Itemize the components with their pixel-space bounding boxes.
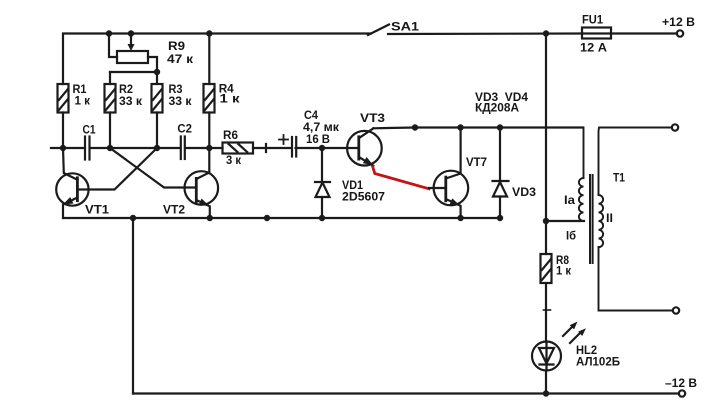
wire emitter bus (64, 217, 501, 219)
wire C2 to R6 (186, 147, 223, 149)
label VD1 (342, 178, 363, 192)
svg-text:33 к: 33 к (169, 94, 193, 108)
svg-text:VT7: VT7 (466, 155, 487, 169)
transistor VT3 (347, 128, 382, 165)
svg-text:R6: R6 (223, 128, 238, 142)
label VT2 (163, 203, 185, 217)
svg-text:T1: T1 (613, 171, 625, 185)
label Ib (566, 229, 576, 243)
svg-text:16 В: 16 В (306, 132, 330, 146)
node A (107, 145, 113, 151)
svg-text:3 к: 3 к (226, 153, 242, 167)
label VT3 (360, 111, 385, 125)
wire nick (544, 309, 551, 311)
wire tap to winding (546, 220, 584, 222)
potentiometer R9 (109, 34, 157, 73)
diode VD1 (315, 148, 330, 218)
label R2 (119, 82, 133, 96)
capacitor C2 (181, 137, 185, 160)
label 16 V (306, 132, 330, 146)
node mid bus (264, 215, 270, 221)
label VD3 (512, 185, 536, 199)
label 4,7 mk (303, 120, 340, 134)
terminal +12V (677, 30, 683, 36)
svg-text:+12 В: +12 В (662, 15, 695, 29)
wire supply branch vertical (545, 34, 547, 222)
wire cross coupling B (77, 148, 157, 190)
label -12 V (665, 376, 697, 390)
wire ground drop (132, 218, 134, 394)
svg-text:1 к: 1 к (556, 264, 572, 278)
resistor R3 (152, 84, 163, 148)
node VD3 top (497, 124, 503, 130)
label VT1 (85, 203, 109, 217)
node R4 bottom (206, 145, 212, 151)
label R8 (556, 253, 569, 267)
label R9 (168, 39, 185, 53)
wire base row left stub (51, 147, 85, 149)
svg-text:АЛ102Б: АЛ102Б (576, 355, 620, 369)
label 33 k (169, 94, 193, 108)
node top rail wiper (128, 30, 134, 36)
wire top rail right segment (388, 32, 582, 35)
node bend (412, 124, 418, 130)
svg-text:VD3: VD3 (512, 185, 536, 199)
node VT2 emitter (207, 215, 213, 221)
terminal -12V (679, 390, 685, 396)
label C1 (83, 123, 96, 137)
label 12 A (580, 41, 607, 55)
red jumper wire (373, 167, 429, 189)
svg-text:1 к: 1 к (75, 93, 91, 107)
wire R6 to C4 (253, 144, 292, 152)
LED arrows (563, 322, 586, 344)
node bus left corner (130, 215, 136, 221)
label FU1 (582, 13, 603, 27)
polarity plus C4 (279, 135, 288, 144)
wire C4 to VT3 base (296, 147, 359, 149)
svg-text:–12 В: –12 В (665, 376, 697, 390)
svg-text:C1: C1 (83, 123, 96, 137)
resistor R2 (105, 84, 116, 148)
svg-text:R9: R9 (168, 39, 185, 53)
wire top rail left segment (63, 34, 371, 85)
wire bottom rail (133, 392, 679, 394)
resistor R6 (223, 143, 254, 154)
label T1 (613, 171, 625, 185)
svg-text:VT2: VT2 (163, 203, 185, 217)
svg-text:2D5607: 2D5607 (342, 189, 385, 203)
diode VD3 (493, 128, 509, 218)
label 1 k (556, 264, 572, 278)
wire R2 R3 top link (110, 72, 157, 84)
label SA1 (391, 20, 419, 34)
terminal secondary bottom (673, 307, 679, 313)
svg-text:Iа: Iа (564, 193, 575, 207)
transformer T1 primary winding Ia (579, 128, 584, 222)
node VD3 bottom (497, 215, 503, 221)
svg-text:II: II (606, 211, 613, 225)
label AL102B (576, 355, 620, 369)
node VT7 collector (457, 124, 463, 130)
label R6 (223, 128, 238, 142)
label 33 k (119, 94, 143, 108)
node VD1 top (319, 145, 325, 151)
node top rail supply branch (543, 30, 549, 36)
LED HL2 (532, 342, 561, 394)
label R3 (169, 82, 183, 96)
label C4 (304, 108, 318, 122)
transformer core (590, 175, 593, 263)
svg-text:VT3: VT3 (360, 111, 385, 125)
node HL2 bottom (543, 390, 549, 396)
fuse FU1 (582, 28, 611, 39)
label 1 k (220, 92, 241, 106)
label +12 V (662, 15, 695, 29)
resistor R4 (204, 34, 215, 149)
wire FU1 to +12V terminal (611, 32, 677, 34)
transistor VT2 (185, 148, 219, 218)
svg-text:Iб: Iб (566, 229, 576, 243)
terminal secondary top (672, 124, 678, 130)
label VT7 (466, 155, 487, 169)
switch SA1 (368, 25, 389, 36)
svg-text:C2: C2 (177, 122, 192, 136)
node VT1 collector (60, 145, 66, 151)
node top rail R4 (206, 30, 212, 36)
label C2 (177, 122, 192, 136)
label Ia (564, 193, 575, 207)
node VD1 bottom (319, 215, 325, 221)
wire C1 to C2 (90, 147, 180, 149)
label R1 (73, 82, 87, 96)
label II (606, 211, 613, 225)
transformer secondary winding II (599, 128, 674, 311)
node B (154, 145, 160, 151)
svg-text:12 А: 12 А (580, 41, 607, 55)
label 47 k (167, 52, 194, 66)
svg-text:47 к: 47 к (167, 52, 194, 66)
node transformer tap (543, 218, 549, 224)
node VT7 emitter (457, 215, 463, 221)
label 1 k (75, 93, 91, 107)
resistor R8 (541, 254, 552, 342)
wire cross coupling A (110, 148, 196, 188)
capacitor C1 (85, 137, 90, 160)
svg-text:КД208А: КД208А (475, 101, 519, 115)
label HL2 (576, 343, 597, 357)
svg-text:1 к: 1 к (220, 92, 241, 106)
label R4 (219, 81, 234, 95)
label VD3 VD4 (475, 90, 528, 104)
label KD208A (475, 101, 519, 115)
svg-text:SA1: SA1 (391, 20, 419, 34)
wire collector bus (373, 126, 583, 129)
label 3 k (226, 153, 242, 167)
label 2D5607 (342, 189, 385, 203)
transistor VT7 (429, 128, 468, 219)
svg-text:FU1: FU1 (582, 13, 603, 27)
svg-text:VT1: VT1 (85, 203, 109, 217)
capacitor C4 (292, 137, 296, 157)
svg-text:33 к: 33 к (119, 94, 143, 108)
node R3 top (154, 69, 160, 75)
transistor VT1 (56, 148, 88, 218)
wire tap to R8 (545, 221, 547, 254)
resistor R1 (58, 84, 69, 148)
node top rail R2 tap (106, 30, 112, 36)
